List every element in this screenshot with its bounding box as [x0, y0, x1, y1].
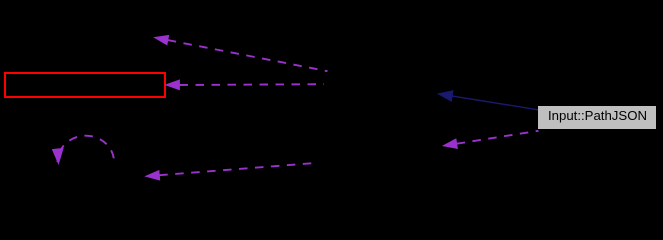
usage edge: long bottom dashed arrow: [146, 163, 312, 180]
usage edge: self-loop arc on bottom-left node: [53, 136, 114, 164]
usage edge: horizontal dashed arrow into red box: [166, 80, 324, 90]
node: red-bordered box (truncated relations node): [5, 73, 165, 97]
usage edge: dashed arrow to top-left node: [155, 36, 328, 72]
usage edge: dashed arrow from Input::PathJSON to bottom-middle node: [443, 131, 538, 149]
inheritance arrow (midnightblue) Input::PathJSON -> base class: [438, 91, 538, 110]
svg-text:Input::PathJSON: Input::PathJSON: [548, 108, 647, 123]
node Input::PathJSON (current class, grey fill): [538, 106, 656, 129]
